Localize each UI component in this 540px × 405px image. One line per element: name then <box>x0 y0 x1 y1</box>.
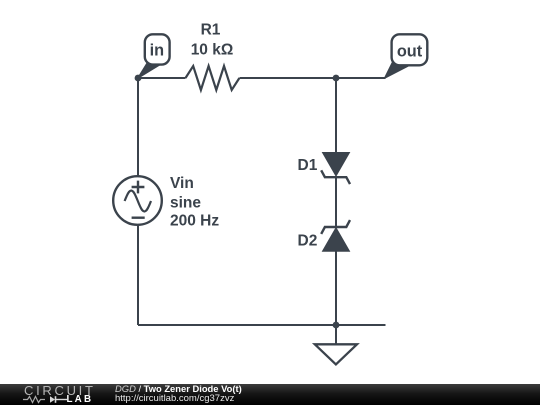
svg-text:200 Hz: 200 Hz <box>170 213 219 230</box>
svg-text:Vin: Vin <box>170 175 194 192</box>
svg-text:in: in <box>150 42 164 60</box>
svg-text:sine: sine <box>170 195 201 212</box>
svg-text:out: out <box>397 42 423 60</box>
svg-text:R1: R1 <box>201 22 221 39</box>
svg-text:10 kΩ: 10 kΩ <box>191 42 234 59</box>
svg-text:D1: D1 <box>298 157 318 174</box>
svg-text:D2: D2 <box>298 233 318 250</box>
